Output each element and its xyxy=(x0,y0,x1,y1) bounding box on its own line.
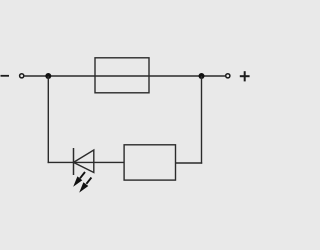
LED D1 emission arrow 1 xyxy=(73,172,85,187)
wire bottom right segment xyxy=(176,162,203,164)
wire top rail xyxy=(24,75,225,77)
node right junction xyxy=(199,73,205,79)
plus terminal label xyxy=(240,71,250,81)
LED D1 emission arrow 2 xyxy=(79,178,91,193)
node left junction xyxy=(45,73,51,79)
terminal left (open circle) xyxy=(20,74,24,78)
wire right vertical xyxy=(201,76,203,164)
wire bottom left segment xyxy=(48,161,125,163)
terminal right (open circle) xyxy=(226,74,230,78)
LED D1 cathode bar xyxy=(73,148,75,175)
resistor R1 (box) xyxy=(124,145,175,180)
fuse F1 (box over wire) xyxy=(95,58,149,93)
minus terminal label xyxy=(1,75,10,77)
wire left vertical xyxy=(47,76,49,163)
LED D1 triangle xyxy=(74,150,94,173)
